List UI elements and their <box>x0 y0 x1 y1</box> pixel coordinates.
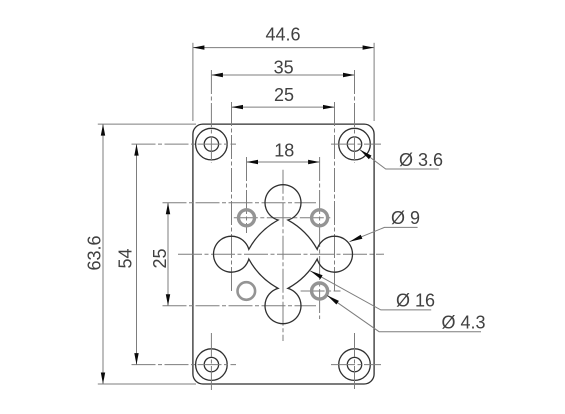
pattern vertical centerline <box>282 170 284 341</box>
svg-text:Ø 4.3: Ø 4.3 <box>442 312 486 332</box>
svg-text:25: 25 <box>274 85 294 105</box>
dim 25 left line <box>167 203 169 306</box>
corner hole top-left bore <box>204 137 218 151</box>
dim 18 line <box>247 161 320 163</box>
svg-text:63.6: 63.6 <box>85 235 105 270</box>
leader diameter 4.3 <box>327 295 481 331</box>
centerline horizontal top-right hole <box>331 143 381 145</box>
screw hole lower-right crosshair horizontal <box>301 290 341 292</box>
plate outline <box>193 124 374 384</box>
svg-text:44.6: 44.6 <box>265 24 300 44</box>
screw hole upper-left (diameter 4.3) <box>239 210 255 226</box>
screw hole upper row centerline <box>234 217 331 219</box>
leader diameter 9 <box>350 227 418 241</box>
centerline vertical top-left hole / ext 35 <box>210 70 212 163</box>
dim 63.6 extension lines <box>98 123 196 125</box>
cavity outline: four diameter-9 ports joined by R8 (diameter 16) arcs <box>214 185 353 324</box>
screw hole upper-right (diameter 4.3) <box>312 210 328 226</box>
pattern horizontal centerline <box>178 253 384 255</box>
bottom port centerline horizontal / ext 25 left <box>163 305 317 307</box>
dim 25 line <box>232 106 335 108</box>
corner hole bottom-left counterbore <box>196 349 228 381</box>
centerline vertical bottom-right hole <box>354 333 356 389</box>
svg-text:25: 25 <box>150 248 170 268</box>
dim 44.6 extension lines <box>192 43 194 121</box>
corner hole bottom-right bore <box>347 357 361 371</box>
centerline horizontal bottom-right hole <box>331 364 381 366</box>
right port centerline vertical / ext 25 <box>334 102 336 293</box>
screw hole lower-right (diameter 4.3) <box>312 283 328 299</box>
corner hole top-left counterbore <box>196 128 228 160</box>
screw hole column left centerline / ext 18 <box>246 157 248 233</box>
corner hole bottom-right counterbore <box>339 349 371 381</box>
centerline horizontal bottom-left hole / ext 54 <box>132 364 237 366</box>
svg-text:54: 54 <box>116 248 136 268</box>
pin hole lower-left <box>238 282 256 300</box>
dim 54 line <box>136 144 138 365</box>
leader diameter 16 <box>310 271 431 310</box>
centerline vertical bottom-left hole <box>210 333 212 392</box>
corner hole bottom-left bore <box>204 357 218 371</box>
leader diameter 3.6 <box>360 150 439 169</box>
corner hole top-right counterbore <box>339 128 371 160</box>
dim 44.6 line <box>193 47 374 49</box>
svg-text:18: 18 <box>274 141 294 161</box>
centerline horizontal top-left hole / ext 54 <box>132 143 237 145</box>
top port centerline horizontal / ext 25 left <box>163 202 317 204</box>
svg-text:35: 35 <box>274 58 294 78</box>
corner hole top-right bore <box>347 137 361 151</box>
dim 63.6 line <box>102 124 104 384</box>
svg-text:Ø 3.6: Ø 3.6 <box>399 150 443 170</box>
left port centerline vertical / ext 25 <box>231 102 233 293</box>
svg-text:Ø 16: Ø 16 <box>396 291 435 311</box>
dim 35 line <box>211 74 354 76</box>
centerline vertical top-right hole / ext 35 <box>354 70 356 163</box>
screw hole column right centerline / ext 18 <box>319 157 321 319</box>
svg-text:Ø 9: Ø 9 <box>391 208 420 228</box>
